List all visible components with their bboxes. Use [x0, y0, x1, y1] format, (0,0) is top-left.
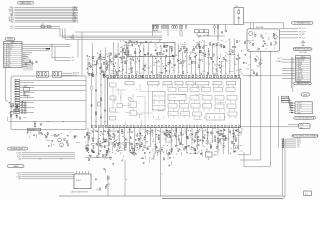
svg-text:SIF: SIF — [154, 103, 156, 105]
connector CN601 (12-pin AV harness) — [4, 41, 22, 68]
svg-text:104: 104 — [187, 146, 189, 148]
damper diode D688 — [206, 151, 217, 160]
svg-text:T601: T601 — [235, 6, 238, 8]
svg-text:V-OUT: V-OUT — [17, 154, 21, 156]
svg-text:100: 100 — [273, 45, 275, 47]
svg-text:VIF: VIF — [154, 94, 156, 96]
svg-text:Q: Q — [189, 115, 190, 117]
svg-text:332: 332 — [245, 63, 247, 65]
svg-text:H: H — [126, 179, 127, 181]
driver stack Q671-Q673 with fan-out wires — [281, 96, 291, 112]
svg-text:C612: C612 — [226, 138, 229, 140]
resistor ladder R621-R631 (bus pull-ups) — [152, 24, 218, 39]
svg-text:GND: GND — [299, 74, 302, 76]
IF/chroma peripheral network (tuning caps and resistors) — [120, 40, 251, 80]
IC501 top pin row with pin numbers — [103, 73, 240, 77]
transistor Q605 buffer cluster — [23, 86, 29, 99]
svg-text:FBP: FBP — [299, 80, 302, 82]
label bar PHOTO DETECTOR / REMOTE — [292, 134, 319, 137]
part label J651 — [299, 52, 307, 54]
svg-text:1K: 1K — [213, 68, 215, 70]
svg-text:F501: F501 — [300, 127, 303, 129]
svg-text:104: 104 — [111, 131, 113, 133]
svg-text:IN: IN — [149, 83, 150, 85]
label HEADPHONE JACK — [293, 48, 312, 51]
svg-text:10K: 10K — [176, 148, 178, 150]
svg-text:H-VCC: H-VCC — [17, 172, 21, 174]
vertical output pump-up capacitors C671-C674 — [95, 169, 110, 191]
svg-text:TO SPEAKER UNIT: TO SPEAKER UNIT — [294, 22, 311, 25]
svg-text:R405: R405 — [141, 43, 144, 45]
svg-text:+5V: +5V — [72, 57, 75, 59]
svg-text:KEY-2: KEY-2 — [297, 143, 301, 145]
svg-text:G: G — [16, 112, 17, 114]
svg-text:100: 100 — [198, 151, 200, 153]
svg-text:C612: C612 — [218, 45, 221, 47]
headphone jack J651 symbol — [301, 41, 304, 46]
svg-text:1K: 1K — [187, 128, 189, 130]
IC501 pin-function label boxes under top edge — [125, 82, 236, 86]
IC501 single-chip TV processor (body outline) — [107, 78, 240, 127]
flyback damper network R688/C688 — [163, 152, 177, 166]
svg-text:104: 104 — [129, 62, 131, 64]
svg-text:332: 332 — [220, 131, 222, 133]
svg-text:0.01: 0.01 — [247, 69, 250, 71]
svg-text:V-OUT: V-OUT — [299, 76, 304, 78]
svg-text:C612: C612 — [154, 44, 157, 46]
sync feedback RC network — [85, 154, 112, 161]
svg-text:J651 3.5MM: J651 3.5MM — [299, 52, 307, 54]
SIF trap network — [251, 56, 263, 77]
svg-text:R405: R405 — [120, 57, 123, 59]
svg-text:332: 332 — [258, 66, 260, 68]
svg-text:IN: IN — [176, 83, 177, 85]
svg-text:H.OUT: H.OUT — [277, 58, 281, 60]
svg-text:Q601: Q601 — [111, 143, 114, 145]
svg-text:GND: GND — [8, 66, 11, 68]
svg-text:R405: R405 — [234, 146, 237, 148]
resistor value labels and capacitors C621-C622 — [153, 24, 228, 34]
delay line DL601 — [152, 24, 157, 36]
svg-text:473: 473 — [159, 40, 161, 42]
svg-text:VRP: VRP — [191, 89, 194, 91]
svg-text:BG: BG — [131, 104, 133, 106]
svg-text:BLK: BLK — [297, 110, 300, 112]
svg-text:TIMING: TIMING — [208, 117, 212, 119]
svg-text:4.7U: 4.7U — [74, 137, 77, 139]
svg-text:10K: 10K — [128, 54, 130, 56]
svg-text:H-GND: H-GND — [16, 176, 21, 178]
remote sensor harness wires with arrows — [281, 138, 301, 148]
svg-text:10K: 10K — [105, 54, 107, 56]
svg-text:IN: IN — [228, 83, 229, 85]
svg-text:HEADPHONE JACK: HEADPHONE JACK — [294, 48, 312, 51]
svg-text:Q601: Q601 — [87, 64, 90, 66]
wire: B+ 9V rail — [9, 121, 87, 122]
svg-text:10K: 10K — [97, 63, 99, 65]
svg-text:RG: RG — [110, 85, 112, 87]
IC501 internal interconnect stubs and net numbers — [113, 84, 236, 126]
svg-text:SP_OUT_L: SP_OUT_L — [299, 28, 306, 30]
wire: tuner IF / video lines to IF block — [60, 28, 162, 40]
svg-text:R621: R621 — [171, 30, 174, 32]
svg-text:10K: 10K — [167, 137, 169, 139]
svg-text:IF+B: IF+B — [10, 28, 13, 30]
svg-text:100: 100 — [158, 66, 160, 68]
svg-text:C612: C612 — [202, 146, 205, 148]
wires from jack strip with series resistors — [20, 80, 86, 113]
svg-text:SP_GND: SP_GND — [299, 34, 305, 36]
svg-text:+9V: +9V — [72, 60, 75, 62]
svg-text:E: E — [162, 174, 163, 176]
wire bus: CRT drive signals to video output stage — [9, 5, 78, 23]
svg-text:6-1: 6-1 — [305, 193, 307, 195]
svg-text:PHOTO DETECTOR / REMOTE: PHOTO DETECTOR / REMOTE — [292, 136, 319, 138]
wire: audio return line down — [240, 51, 261, 160]
svg-text:10K: 10K — [197, 137, 199, 139]
wire: vertical feed to CRT connector arrows — [277, 96, 279, 148]
svg-text:BLK: BLK — [169, 113, 171, 115]
wire: AGC / IF+B lines with inductor L601, L602 — [10, 24, 60, 30]
transformer T601 (shielded driver) — [234, 6, 244, 24]
svg-text:1K: 1K — [228, 40, 230, 42]
svg-text:CN601: CN601 — [7, 39, 13, 41]
svg-text:GND: GND — [73, 21, 76, 23]
svg-text:1K: 1K — [180, 150, 182, 152]
svg-text:Q601: Q601 — [113, 135, 116, 137]
svg-text:C612: C612 — [260, 60, 263, 62]
svg-text:100: 100 — [158, 131, 160, 133]
svg-text:TO CRT SOCKET PCB: TO CRT SOCKET PCB — [295, 118, 315, 120]
svg-text:+B 115V: +B 115V — [299, 59, 304, 61]
svg-text:IR-IN: IR-IN — [297, 139, 300, 141]
svg-text:G-DRV: G-DRV — [297, 105, 302, 107]
bus filter block L621-L623 row — [195, 24, 226, 41]
svg-text:104: 104 — [182, 66, 184, 68]
svg-text:473: 473 — [124, 45, 126, 47]
wires into CN501 with source labels — [243, 58, 296, 78]
svg-text:DEG: DEG — [303, 95, 308, 97]
svg-text:R-DRV: R-DRV — [297, 103, 301, 105]
wire: vertical ground drops to bottom bus — [108, 151, 163, 196]
svg-text:IN: IN — [214, 83, 215, 85]
svg-text:SIF: SIF — [72, 35, 74, 37]
net labels +5V / +9V — [52, 45, 74, 63]
svg-text:Y-IN: Y-IN — [8, 50, 11, 52]
svg-text:Q601: Q601 — [234, 64, 237, 66]
svg-text:104: 104 — [205, 143, 207, 145]
svg-text:Q: Q — [224, 112, 225, 114]
wire: +12V run to audio amp — [244, 23, 284, 29]
svg-text:IN: IN — [164, 83, 165, 85]
svg-text:RGB: RGB — [216, 97, 219, 99]
svg-text:332: 332 — [184, 62, 186, 64]
svg-text:4.7U: 4.7U — [216, 71, 219, 73]
svg-text:104: 104 — [241, 129, 243, 131]
connector label CN601 — [5, 38, 15, 41]
wires: component field drops to IC top pins — [88, 38, 239, 74]
svg-text:Q601: Q601 — [213, 128, 216, 130]
svg-text:LED: LED — [297, 145, 300, 147]
audio mute transistors Q606/Q607 network — [45, 131, 80, 147]
svg-text:CN602: CN602 — [13, 166, 19, 168]
pill label DEGAUSS — [301, 93, 310, 97]
svg-text:222: 222 — [98, 142, 100, 144]
svg-text:10K: 10K — [118, 145, 120, 147]
svg-text:MAIN CN001: MAIN CN001 — [20, 2, 31, 5]
wires from CN601 rows with junction dots — [22, 44, 55, 70]
svg-text:MUT: MUT — [193, 114, 196, 116]
resistor array R614-R615 — [53, 71, 62, 77]
svg-text:IN: IN — [197, 83, 198, 85]
svg-text:PWM: PWM — [181, 113, 184, 115]
svg-text:104: 104 — [200, 129, 202, 131]
svg-text:332: 332 — [146, 142, 148, 144]
svg-text:10: 10 — [4, 62, 6, 64]
fuse F501 block with feed wires — [240, 123, 310, 129]
svg-text:Q601: Q601 — [251, 69, 254, 71]
svg-text:L601: L601 — [41, 24, 44, 26]
svg-text:473: 473 — [148, 131, 150, 133]
svg-text:100: 100 — [115, 140, 117, 142]
svg-text:R621: R621 — [175, 30, 178, 32]
svg-text:FUSE: FUSE — [300, 125, 304, 127]
page reference label TO SPEAKER UNIT — [292, 21, 314, 24]
svg-text:SCL: SCL — [8, 56, 11, 58]
svg-text:+12V: +12V — [299, 72, 302, 74]
wire: 9V rail to IF block — [75, 31, 162, 33]
svg-text:473: 473 — [162, 30, 164, 32]
connector CN501 to deflection board — [296, 56, 311, 82]
wire: audio line down to bottom-left routing — [240, 51, 251, 155]
svg-text:IC601: IC601 — [76, 180, 81, 182]
svg-text:EQ: EQ — [169, 105, 171, 107]
svg-text:KEY-1: KEY-1 — [297, 141, 301, 143]
svg-text:+5V: +5V — [297, 147, 300, 149]
svg-text:KEY: KEY — [8, 64, 11, 66]
svg-text:100: 100 — [142, 129, 144, 131]
svg-text:R625: R625 — [180, 30, 183, 32]
svg-text:Q601: Q601 — [226, 61, 229, 63]
svg-text:GND: GND — [18, 158, 21, 160]
svg-text:DET: DET — [154, 98, 157, 100]
svg-text:C612: C612 — [134, 62, 137, 64]
IC501 bottom peripheral network (filters and pulls) — [84, 128, 243, 157]
svg-text:+5V: +5V — [8, 58, 11, 60]
svg-text:+9V: +9V — [8, 60, 11, 62]
capacitors C603-C606 (line filters) — [25, 60, 38, 65]
svg-text:0.01: 0.01 — [181, 46, 184, 48]
label bar DEFLECTION — [294, 82, 312, 85]
svg-text:473: 473 — [106, 142, 108, 144]
svg-text:1K: 1K — [185, 30, 187, 32]
svg-text:100: 100 — [208, 54, 210, 56]
svg-text:104: 104 — [240, 150, 242, 152]
svg-text:4.7U: 4.7U — [108, 136, 111, 138]
label bar TO CRT SOCKET PCB — [294, 116, 316, 119]
wire: left ground return — [6, 68, 8, 101]
svg-text:222: 222 — [239, 72, 241, 74]
svg-text:4.7U: 4.7U — [201, 48, 204, 50]
svg-text:C-SYNC: C-SYNC — [16, 152, 21, 154]
svg-text:HP_OUT: HP_OUT — [299, 38, 305, 40]
wires: IC bottom pins to peripheral parts — [88, 128, 239, 156]
IF sub-block outline with SAW filter SF601 — [128, 40, 175, 57]
svg-text:H-OUT: H-OUT — [17, 156, 22, 158]
svg-text:222: 222 — [94, 131, 96, 133]
svg-text:GND: GND — [8, 52, 11, 54]
svg-text:TNT: TNT — [203, 97, 205, 99]
sub-board outline (front jack pack) — [11, 76, 86, 130]
block label POWER INPUT — [8, 147, 28, 150]
connector JK601 (RCA jack strip, 14 contacts) — [15, 79, 20, 114]
ground bus and board outline bottom edge — [59, 140, 285, 198]
connector label CN001 (CRT harness) — [18, 1, 34, 4]
connector label CN602 — [8, 165, 25, 168]
svg-text:473: 473 — [95, 144, 97, 146]
sheet reference 6-1 — [304, 191, 312, 196]
IC501 internal function blocks — [110, 83, 238, 120]
svg-text:11: 11 — [296, 80, 298, 82]
wire group: horizontal drive lines to IC601 — [16, 172, 74, 180]
svg-text:GND: GND — [297, 112, 300, 114]
svg-text:Q601: Q601 — [203, 35, 206, 37]
svg-text:1K: 1K — [169, 150, 171, 152]
svg-text:BUS: BUS — [214, 89, 217, 91]
wires: feeds to IC left-side pins with series parts — [90, 74, 106, 128]
svg-text:4.7U: 4.7U — [162, 131, 165, 133]
IC601 vertical deflection output (LA7840) — [71, 171, 91, 193]
connector CN502 (CRT drive) with direction arrows — [289, 102, 312, 115]
wire: audio R/L feeds — [62, 72, 79, 77]
svg-text:IN: IN — [187, 83, 188, 85]
svg-text:FBP: FBP — [18, 178, 21, 180]
voltage regulator IC602 with decoupling — [27, 128, 46, 138]
svg-text:Q601: Q601 — [204, 134, 207, 136]
svg-text:10K: 10K — [106, 145, 108, 147]
svg-text:10K: 10K — [166, 30, 168, 32]
svg-text:POWER SUPPLY: POWER SUPPLY — [10, 148, 25, 150]
svg-text:1K: 1K — [150, 152, 152, 154]
svg-text:222: 222 — [171, 47, 173, 49]
IC501 bottom pin row with pin numbers — [92, 125, 241, 131]
svg-text:100: 100 — [172, 58, 174, 60]
svg-text:1K: 1K — [127, 57, 129, 59]
audio output block Q651/Q652 (speaker amplifier) — [247, 26, 280, 51]
svg-text:D688: D688 — [214, 155, 217, 157]
resistor R641 / capacitor C641 on B+ rail — [34, 122, 42, 128]
svg-text:10: 10 — [296, 78, 298, 80]
video input peripheral network — [87, 53, 122, 78]
lower filter row — [112, 154, 155, 164]
svg-text:222: 222 — [199, 36, 201, 38]
svg-text:0.01: 0.01 — [203, 130, 206, 132]
svg-text:100: 100 — [153, 158, 155, 160]
svg-text:11: 11 — [4, 64, 6, 66]
wire group: sync outputs to deflection — [16, 152, 75, 160]
svg-text:IN: IN — [126, 83, 127, 85]
wire: mute line down with elbow — [244, 51, 270, 167]
svg-text:GND: GND — [299, 63, 302, 65]
wires: vertical feeds left of IC area — [78, 32, 86, 130]
svg-text:P-ON: P-ON — [8, 62, 12, 64]
wires: speaker outputs with net labels — [280, 28, 307, 39]
regulator transistors Q601/Q602 with bias network — [8, 101, 27, 121]
svg-text:473: 473 — [214, 30, 216, 32]
svg-text:H-OUT: H-OUT — [299, 61, 304, 63]
svg-text:100: 100 — [266, 45, 268, 47]
svg-text:1K: 1K — [147, 134, 149, 136]
svg-text:SYNC SEP: SYNC SEP — [170, 97, 176, 99]
svg-text:Q601: Q601 — [92, 138, 95, 140]
svg-text:4.7U: 4.7U — [147, 68, 150, 70]
svg-text:DEFLECTION: DEFLECTION — [297, 83, 309, 85]
svg-text:Q601: Q601 — [168, 142, 171, 144]
svg-text:VCO: VCO — [169, 89, 172, 91]
svg-text:Q601: Q601 — [14, 110, 17, 112]
svg-text:R405: R405 — [218, 138, 221, 140]
svg-text:1K: 1K — [69, 131, 71, 133]
svg-text:R405: R405 — [157, 61, 160, 63]
svg-text:4.7U: 4.7U — [225, 53, 228, 55]
svg-text:Q605: Q605 — [24, 86, 27, 88]
wire: B+ 5V distribution rail — [152, 23, 234, 25]
svg-text:0.01: 0.01 — [212, 45, 215, 47]
wire pair: +B feeds along right edge — [291, 57, 293, 92]
svg-text:B-DRV: B-DRV — [297, 108, 301, 110]
svg-text:473: 473 — [154, 46, 156, 48]
svg-text:V-GND: V-GND — [299, 78, 304, 80]
svg-text:IC602 REG: IC602 REG — [28, 129, 35, 131]
resistor array R611-R613 (audio input) — [37, 71, 49, 77]
svg-text:SP_OUT_R: SP_OUT_R — [299, 31, 306, 33]
